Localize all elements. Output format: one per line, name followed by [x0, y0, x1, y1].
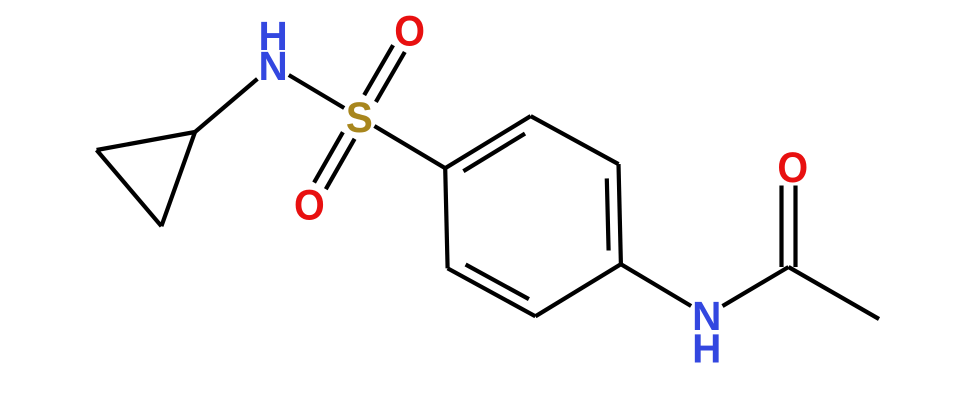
svg-text:O: O — [777, 144, 808, 192]
svg-text:O: O — [394, 7, 425, 55]
svg-text:N: N — [258, 43, 287, 89]
svg-text:O: O — [294, 181, 325, 229]
svg-text:S: S — [346, 93, 373, 141]
svg-text:H: H — [692, 325, 721, 371]
